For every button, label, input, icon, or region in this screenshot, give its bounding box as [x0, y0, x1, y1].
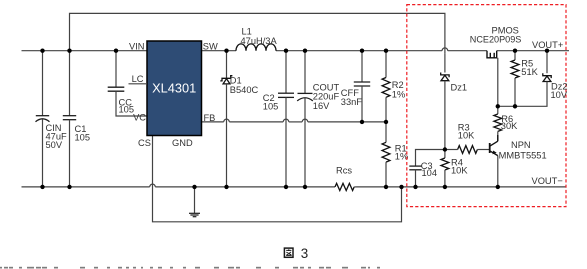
junction C2 top	[284, 49, 288, 53]
junction COUT top	[303, 49, 307, 53]
inductor L1	[236, 26, 277, 50]
svg-text:105: 105	[263, 101, 279, 111]
svg-text:D1: D1	[230, 75, 242, 85]
capacitor CFF	[341, 51, 370, 122]
transistor Q1 PMOS NCE20P09S	[470, 25, 522, 106]
svg-text:FB: FB	[204, 113, 216, 123]
svg-text:104: 104	[422, 168, 438, 178]
pin LC label and stub	[129, 74, 148, 84]
junction C1 bottom	[67, 185, 71, 189]
svg-text:10K: 10K	[451, 166, 468, 176]
svg-text:B540C: B540C	[230, 85, 259, 95]
junction GND pin rail	[192, 185, 196, 189]
junction NPN emitter rail	[496, 185, 500, 189]
svg-text:NPN: NPN	[511, 140, 531, 150]
svg-text:SW: SW	[203, 42, 218, 52]
junction CIN bottom	[40, 185, 44, 189]
wire SW rail	[202, 48, 488, 51]
junction R1 bottom	[384, 185, 388, 189]
svg-text:51K: 51K	[521, 67, 538, 77]
caption clipped bottom text tips	[0, 267, 380, 269]
junction C2 bottom	[284, 185, 288, 189]
diode D1 B540C schottky	[220, 51, 258, 187]
svg-text:R2: R2	[392, 80, 404, 90]
resistor R4	[441, 150, 468, 187]
svg-text:16V: 16V	[313, 101, 330, 111]
svg-text:105: 105	[75, 132, 91, 142]
junction CFF to FB	[360, 120, 364, 124]
resistor R5	[511, 51, 539, 107]
junction R5 top	[513, 49, 517, 53]
junction CC top	[114, 49, 118, 53]
capacitor C1	[63, 51, 90, 187]
svg-text:33nF: 33nF	[341, 97, 363, 107]
svg-text:50V: 50V	[46, 140, 63, 150]
resistor R1	[382, 122, 408, 187]
wire VOUT+ rail after PMOS	[497, 50, 569, 52]
svg-text:Dz1: Dz1	[451, 83, 468, 93]
capacitor COUT polarized	[297, 51, 339, 187]
wire CS loop	[153, 136, 402, 222]
transistor Q2 NPN MMBT5551	[490, 135, 547, 187]
resistor Rcs	[335, 166, 357, 191]
svg-text:VC: VC	[133, 113, 146, 123]
capacitor CIN	[36, 51, 68, 187]
junction D1 bottom	[224, 185, 228, 189]
junction R2 top	[384, 49, 388, 53]
resistor R3	[445, 122, 490, 153]
junction CFF top	[360, 49, 364, 53]
svg-text:VIN: VIN	[129, 41, 145, 51]
svg-text:CS: CS	[138, 138, 151, 148]
svg-text:MMBT5551: MMBT5551	[499, 151, 547, 161]
svg-text:LC: LC	[132, 74, 144, 84]
junction C1 top	[67, 49, 71, 53]
red dashed protection box	[407, 5, 566, 207]
junction R1 R2 FB	[384, 120, 388, 124]
zener Dz1	[441, 53, 467, 149]
svg-text:XL4301: XL4301	[152, 81, 196, 96]
junction R5 bottom	[513, 104, 517, 108]
capacitor CC	[108, 51, 147, 116]
svg-text:10K: 10K	[458, 131, 475, 141]
junction D1 SW node	[224, 49, 228, 53]
capacitor C3	[409, 150, 445, 187]
svg-text:1%: 1%	[392, 90, 405, 100]
junction gate R6	[496, 104, 500, 108]
junction Dz1 R3 R4 C3	[443, 147, 447, 151]
svg-text:3: 3	[301, 246, 308, 261]
resistor R2	[382, 51, 405, 122]
svg-text:VOUT−: VOUT−	[532, 176, 563, 186]
svg-text:VOUT+: VOUT+	[532, 40, 563, 50]
junction CS loop rail	[399, 185, 403, 189]
junction R4 bottom	[443, 185, 447, 189]
junction COUT bottom	[303, 185, 307, 189]
svg-text:NCE20P09S: NCE20P09S	[470, 34, 522, 44]
caption 图 3	[284, 246, 308, 261]
op-amp U1 XL4301 regulator IC	[147, 41, 202, 136]
svg-text:30K: 30K	[501, 121, 518, 131]
capacitor C2	[263, 51, 294, 187]
svg-text:Rcs: Rcs	[336, 166, 352, 176]
wire FB line	[202, 119, 387, 122]
junction C3 bottom	[413, 185, 417, 189]
junction Dz2 top	[545, 49, 549, 53]
resistor R6	[494, 106, 518, 141]
svg-text:47uH/3A: 47uH/3A	[241, 36, 278, 46]
zener Dz2	[498, 51, 568, 107]
wire top rail from C1 node to Dz1	[70, 13, 445, 53]
junction CIN top	[40, 49, 44, 53]
wire VIN rail (input rail y=50)	[22, 50, 148, 52]
svg-text:10V: 10V	[551, 90, 568, 100]
svg-text:105: 105	[119, 104, 135, 114]
wire ground rail	[22, 184, 567, 187]
ground symbol	[189, 187, 200, 217]
svg-text:GND: GND	[172, 138, 193, 148]
svg-text:L1: L1	[242, 26, 252, 36]
